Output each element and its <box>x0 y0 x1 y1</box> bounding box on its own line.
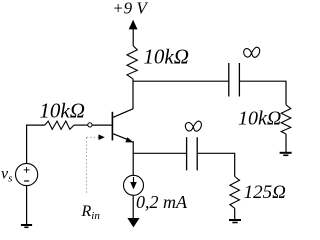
wire collector node vertical <box>132 79 134 109</box>
value label ∞ (output capacitor) <box>244 47 260 57</box>
transistor Q1 base bar <box>111 112 113 141</box>
current source arrow <box>130 177 137 189</box>
resistor RE 125Ω <box>230 177 240 209</box>
ground (RE) <box>229 220 241 223</box>
resistor RC 10k (collector) <box>127 46 137 79</box>
ground (load) <box>280 153 292 156</box>
wire current source to negative rail <box>132 195 134 218</box>
wire node to base <box>92 124 112 126</box>
svg-text:10kΩ: 10kΩ <box>238 108 281 130</box>
wire input resistor to node <box>74 124 88 126</box>
svg-text:125Ω: 125Ω <box>244 182 287 203</box>
svg-text:10kΩ: 10kΩ <box>39 98 85 122</box>
svg-text:+9 V: +9 V <box>112 0 149 18</box>
node open circle (base input) <box>88 123 92 127</box>
source vs plus sign <box>24 167 30 173</box>
capacitor C2 right plate <box>196 137 198 170</box>
transistor Q1 emitter arrowhead <box>125 137 133 142</box>
current source I1 circle <box>124 175 144 195</box>
value label ∞ (bypass capacitor) <box>185 121 201 131</box>
wire from +9V arrow to resistor R_C <box>132 29 134 46</box>
transistor Q1 collector lead <box>113 109 133 118</box>
svg-text:10kΩ: 10kΩ <box>143 45 189 69</box>
resistor RB 10k (input) <box>45 121 74 129</box>
wire emitter vertical to current source <box>132 141 134 175</box>
Rin dashed arrow <box>86 134 104 140</box>
ground (source) <box>21 225 32 227</box>
negative rail arrow <box>127 218 139 227</box>
wire capacitor C1 to load resistor <box>239 81 286 105</box>
wire RE to ground <box>234 208 236 219</box>
svg-text:0,2 mA: 0,2 mA <box>136 192 188 212</box>
source vs circle <box>16 163 38 185</box>
power supply arrow +9V <box>129 20 138 30</box>
source vs minus sign <box>24 180 29 182</box>
capacitor C2 (bypass, infinite) left plate <box>186 137 188 170</box>
transistor Q1 emitter lead <box>113 134 130 141</box>
wire load resistor to ground <box>285 134 287 152</box>
capacitor C1 right plate <box>238 63 240 97</box>
wire collector node to output capacitor <box>133 80 229 82</box>
resistor RL 10k (load) <box>281 105 291 134</box>
capacitor C1 (output, infinite) left plate <box>228 63 230 97</box>
wire vs to ground <box>26 186 28 225</box>
wire bypass capacitor to resistor RE <box>197 153 235 176</box>
wire vs to input resistor <box>27 125 45 163</box>
wire emitter to bypass capacitor <box>133 152 187 154</box>
Rin dashed vertical line <box>85 137 87 194</box>
